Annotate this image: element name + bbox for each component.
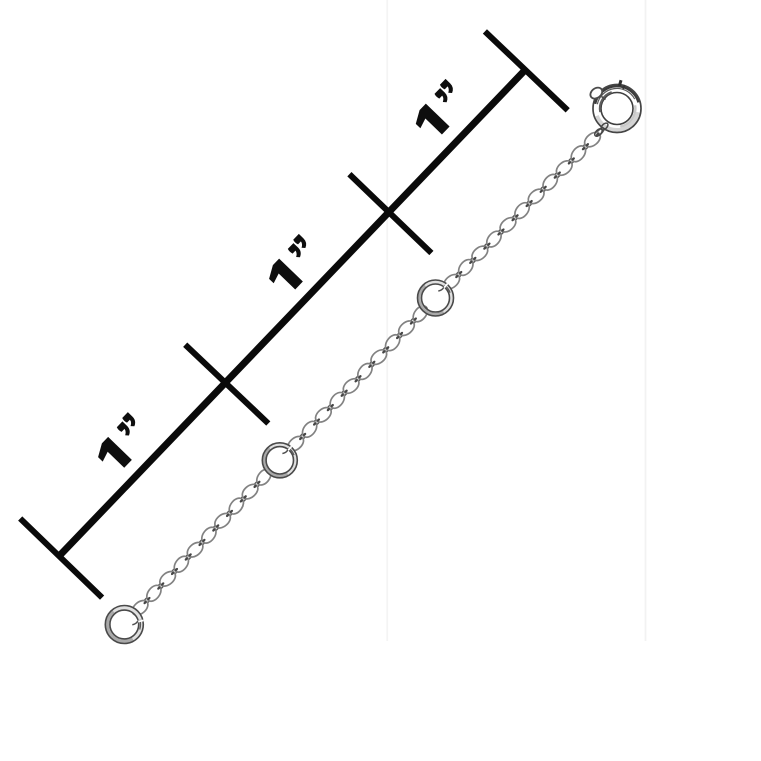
label 1 inch (bottom) (91, 412, 154, 475)
tick mark C (349, 174, 431, 253)
label 1 inch (top) (409, 79, 472, 142)
jump ring 3 (418, 280, 454, 316)
chain segment 2 (285, 303, 430, 454)
jump ring 1 (bottom end) (105, 606, 143, 644)
label 1 inch (middle) (262, 234, 325, 297)
jump ring 2 (262, 443, 297, 478)
tick mark D (top-right) (485, 31, 568, 110)
faint photo edge line right (645, 0, 647, 641)
faint photo edge line middle (386, 0, 388, 641)
chain segment 1 (130, 466, 274, 618)
measurement line (60, 70, 526, 556)
chain segment 3 (441, 127, 605, 292)
spring ring clasp (588, 80, 641, 137)
tick mark A (bottom-left) (20, 519, 102, 598)
tick mark B (185, 345, 268, 424)
